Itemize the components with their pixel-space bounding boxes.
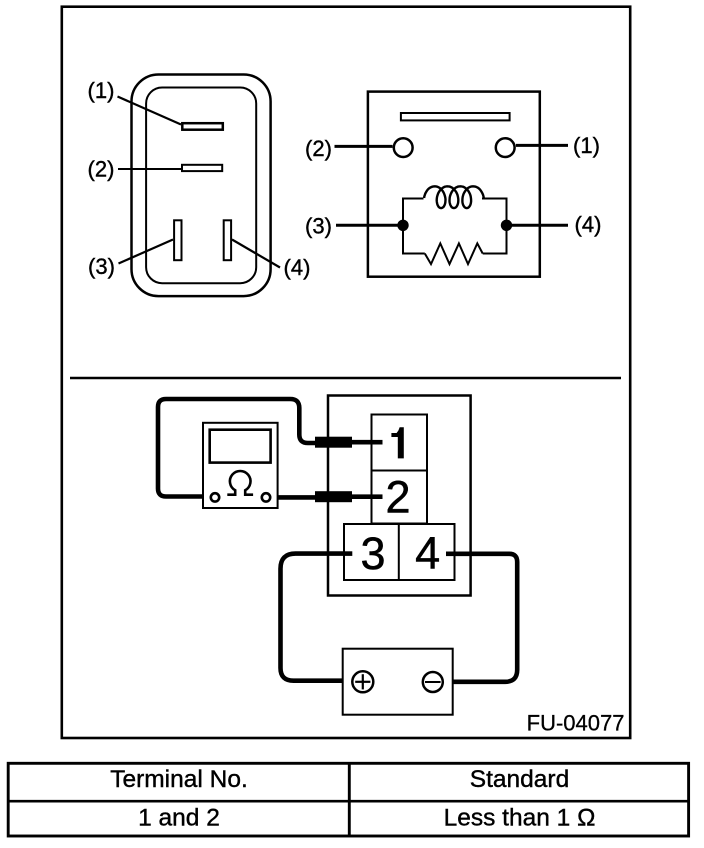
- svg-text:(1): (1): [573, 133, 600, 158]
- svg-text:(4): (4): [575, 212, 602, 237]
- svg-text:(3): (3): [88, 254, 115, 279]
- svg-text:Less than 1 Ω: Less than 1 Ω: [444, 805, 596, 832]
- svg-text:FU-04077: FU-04077: [527, 711, 625, 736]
- svg-text:Standard: Standard: [470, 766, 569, 793]
- svg-text:(2): (2): [305, 136, 332, 161]
- svg-text:(4): (4): [284, 255, 311, 280]
- svg-text:1 and 2: 1 and 2: [138, 805, 220, 832]
- svg-text:2: 2: [385, 471, 410, 522]
- svg-text:(3): (3): [305, 214, 332, 239]
- svg-text:3: 3: [360, 528, 385, 579]
- svg-text:4: 4: [415, 528, 440, 579]
- svg-text:(1): (1): [88, 78, 115, 103]
- svg-text:(2): (2): [88, 157, 115, 182]
- svg-text:Terminal No.: Terminal No.: [110, 766, 248, 793]
